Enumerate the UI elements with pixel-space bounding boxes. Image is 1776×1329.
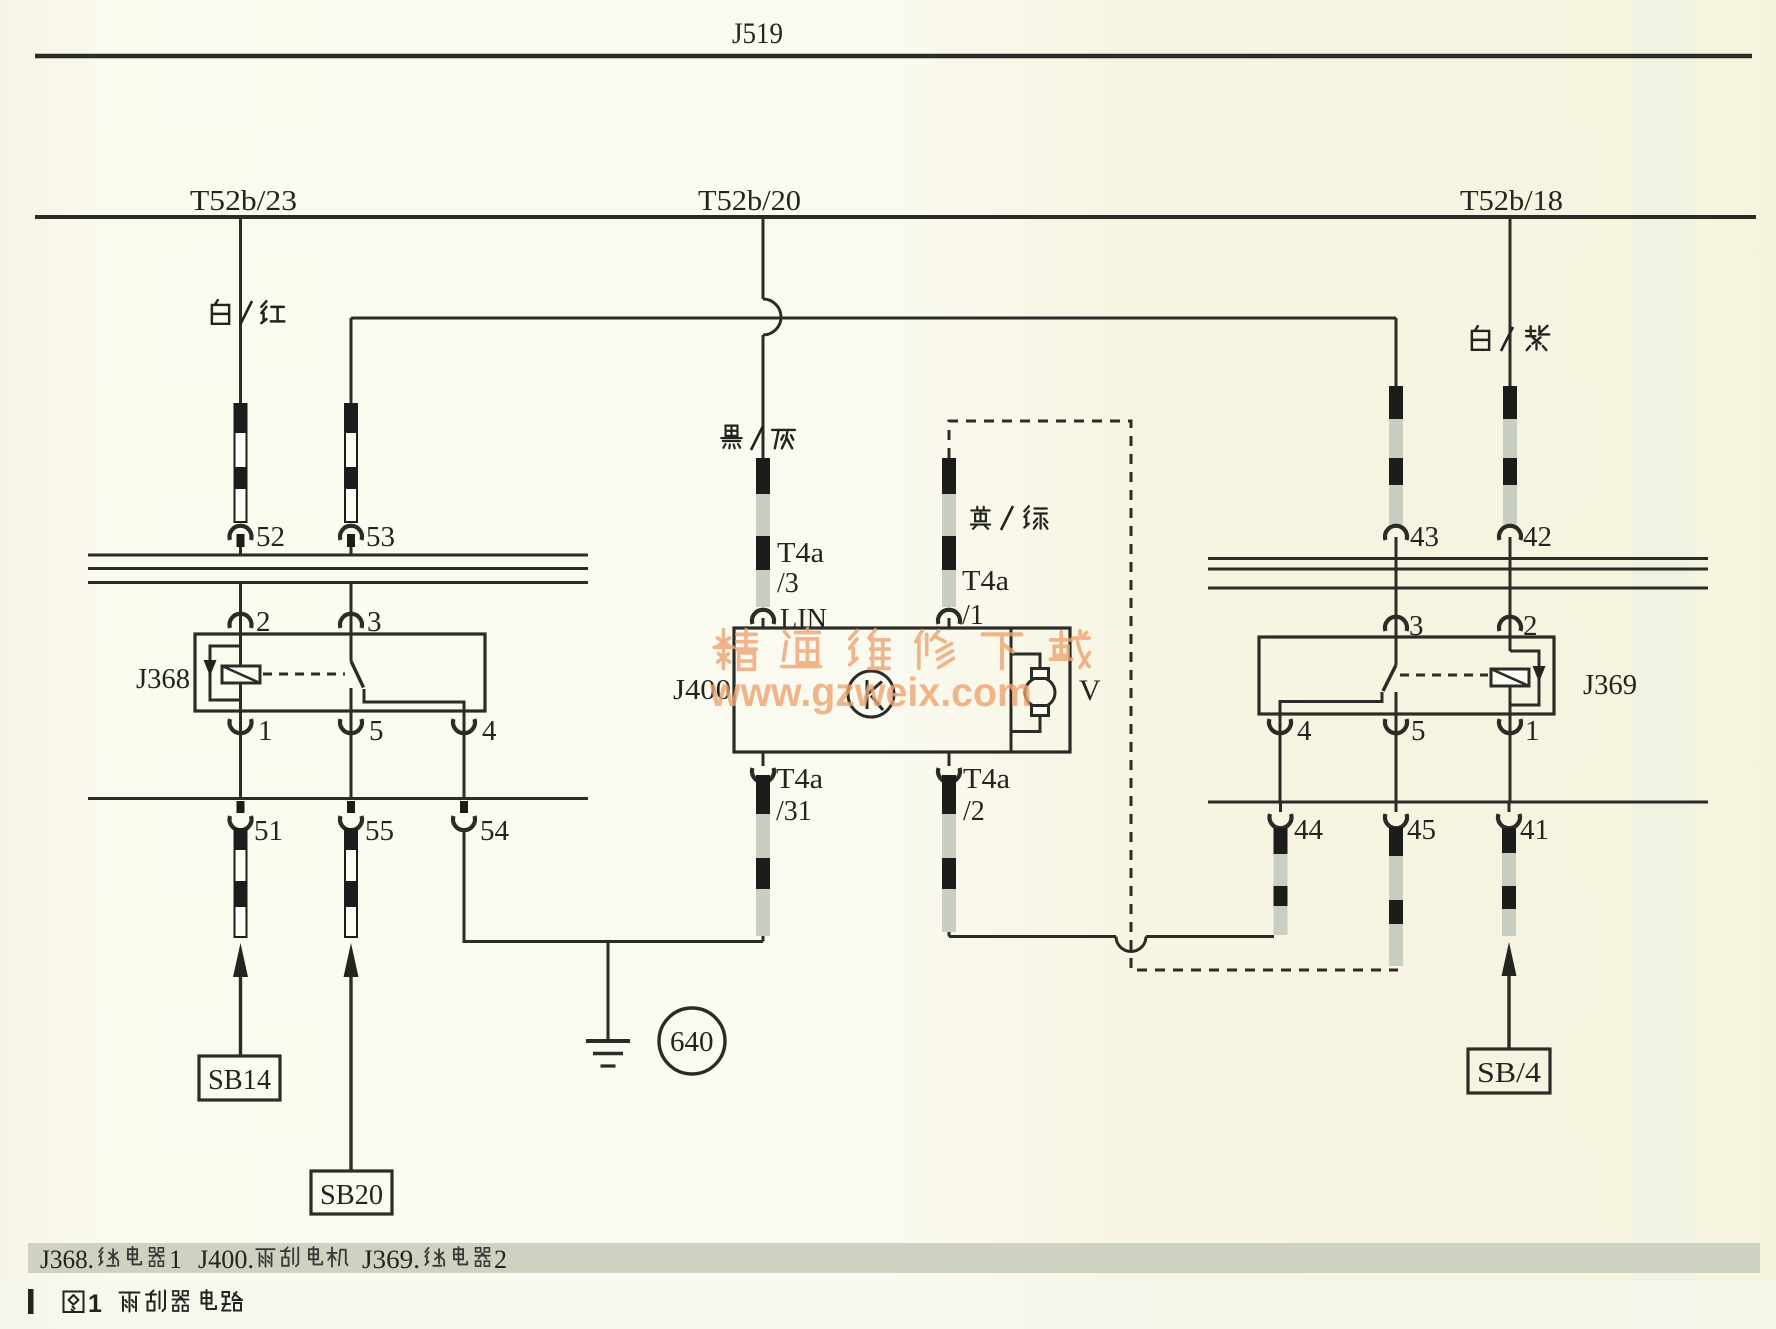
svg-text:2: 2 bbox=[256, 606, 271, 638]
svg-text:LIN: LIN bbox=[780, 604, 827, 635]
right multi-core lines bbox=[1208, 559, 1708, 589]
hop on /2 run bbox=[1116, 937, 1146, 952]
svg-text:/1: /1 bbox=[962, 600, 984, 631]
wire coil to pin1 bbox=[239, 683, 242, 798]
wire crossover hop at T52b/20 column bbox=[763, 299, 781, 335]
wire branch down to 43 bbox=[1395, 318, 1398, 386]
J369 coil diagonal bbox=[1491, 669, 1529, 686]
connector 5 (J369) bbox=[1385, 719, 1407, 733]
connector 3 (J369) bbox=[1385, 617, 1407, 631]
connector 1 bbox=[230, 719, 252, 733]
pin stub 51 bbox=[237, 801, 245, 813]
svg-text:54: 54 bbox=[480, 815, 510, 847]
svg-text:T52b/20: T52b/20 bbox=[698, 185, 801, 217]
pump brush bottom bbox=[1032, 706, 1049, 716]
svg-text:T4a: T4a bbox=[963, 764, 1011, 795]
svg-text:T52b/18: T52b/18 bbox=[1460, 185, 1563, 217]
wire LIN stub bbox=[762, 618, 765, 628]
watermark hanzi line bbox=[714, 629, 1089, 669]
svg-text:5: 5 bbox=[1411, 715, 1426, 747]
svg-text:J368: J368 bbox=[136, 663, 190, 695]
wire into J368 pin2 bbox=[239, 583, 242, 666]
arrow to SB/4 bbox=[1507, 974, 1510, 1049]
J368 pin4 link bbox=[364, 689, 464, 798]
ground drop bbox=[607, 942, 610, 1041]
svg-text:/3: /3 bbox=[777, 568, 799, 599]
J368 coil diagonal bbox=[222, 666, 260, 683]
wire branch 53-to-43 horizontal bbox=[351, 317, 1396, 320]
wire stripe 42 bbox=[1503, 386, 1517, 524]
svg-text:T4a: T4a bbox=[776, 764, 824, 795]
wire coil to pin1 (J369) bbox=[1509, 686, 1512, 802]
svg-text:/31: /31 bbox=[776, 796, 812, 827]
wire stripe 41 bbox=[1502, 828, 1516, 936]
J369 pin4 link bbox=[1280, 692, 1382, 802]
figure title: fig1 wiper circuit bbox=[64, 1290, 243, 1312]
pin stub 53 bbox=[347, 534, 355, 547]
wire branch down to 53 bbox=[350, 318, 353, 403]
svg-text:45: 45 bbox=[1407, 814, 1436, 846]
wire stripe T4a/1 yellow/green bbox=[942, 458, 956, 607]
wire /2 run to 44 with hop bbox=[949, 930, 1116, 937]
wire 43 down bbox=[1395, 537, 1398, 665]
ground symbol bbox=[586, 1039, 630, 1043]
svg-text:51: 51 bbox=[254, 815, 283, 847]
svg-text:SB/4: SB/4 bbox=[1477, 1058, 1541, 1089]
connector 4 bbox=[453, 719, 475, 733]
SB/4 box bbox=[1468, 1049, 1550, 1093]
wire stub 44 bbox=[1279, 802, 1282, 812]
svg-text:/2: /2 bbox=[963, 796, 985, 827]
svg-text:4: 4 bbox=[1297, 715, 1312, 747]
J369 coil rect bbox=[1491, 669, 1529, 686]
wire /31 to ground run bbox=[762, 934, 765, 942]
wire stripe 53 white/black bbox=[344, 403, 358, 522]
wire stripe 51 white/black bbox=[234, 828, 248, 937]
J369 coil arrow bbox=[1533, 666, 1546, 682]
wire colour label white/red bbox=[212, 300, 284, 324]
relay box J368 bbox=[195, 634, 485, 711]
wire T52b/20 below hop bbox=[762, 335, 765, 458]
connector 41 bbox=[1498, 814, 1520, 828]
connector T4a/31 bbox=[752, 768, 774, 782]
J368 dashed link bbox=[263, 673, 345, 676]
connector 42 bbox=[1499, 526, 1521, 540]
connector 45 bbox=[1385, 814, 1407, 828]
wire /1 stub bbox=[948, 618, 951, 628]
svg-text:J369.: J369. bbox=[362, 1245, 420, 1274]
wire stripe 55 white/black bbox=[344, 828, 358, 937]
arrow to SB14 bbox=[239, 975, 242, 1056]
wire contact to pin5 (J369) bbox=[1395, 692, 1398, 802]
svg-text:T4a: T4a bbox=[777, 538, 825, 569]
svg-text:52: 52 bbox=[256, 521, 285, 553]
SB20 box bbox=[311, 1171, 392, 1214]
connector 4 (J369) bbox=[1269, 719, 1291, 733]
wire 54 run to ground node bbox=[464, 831, 763, 942]
wire T52b/23 drop bbox=[239, 217, 242, 403]
svg-text:SB14: SB14 bbox=[208, 1065, 271, 1096]
svg-text:3: 3 bbox=[367, 606, 382, 638]
connector 55 bbox=[340, 816, 362, 830]
svg-text:SB20: SB20 bbox=[320, 1180, 383, 1211]
connector T4a/1 top bbox=[938, 610, 960, 624]
pin stub 55 bbox=[347, 801, 355, 813]
pump wiring loop bbox=[1011, 654, 1040, 732]
svg-text:3: 3 bbox=[1409, 610, 1424, 642]
svg-text:53: 53 bbox=[366, 521, 395, 553]
wire stub 45 bbox=[1395, 802, 1398, 812]
pump brush top bbox=[1032, 669, 1049, 679]
wire 53 below stripe bbox=[350, 540, 353, 556]
J368 coil arrow bbox=[204, 660, 217, 676]
wire T52b/18 drop bbox=[1509, 216, 1512, 386]
motor symbol K strokes bbox=[867, 680, 883, 710]
pump compartment divider bbox=[1010, 628, 1013, 752]
wire stripe 45 bbox=[1389, 827, 1403, 966]
svg-text:J400.: J400. bbox=[198, 1245, 254, 1274]
right lower bus bbox=[1208, 801, 1708, 804]
J369 dashed link bbox=[1400, 674, 1488, 677]
J400 bottom stub /2 bbox=[948, 752, 951, 766]
wire colour label black/grey bbox=[721, 426, 795, 449]
svg-text:55: 55 bbox=[365, 815, 394, 847]
connector 1 (J369) bbox=[1499, 719, 1521, 733]
connector 43 bbox=[1385, 526, 1407, 540]
connector 5 bbox=[340, 719, 362, 733]
svg-text:T52b/23: T52b/23 bbox=[190, 185, 297, 217]
wire stripe T4a/31 bbox=[756, 775, 770, 936]
bus T52b bbox=[35, 215, 1756, 219]
arrow to SB20 bbox=[349, 975, 352, 1171]
svg-text:1: 1 bbox=[169, 1245, 182, 1274]
connector 2 bbox=[230, 614, 252, 628]
svg-text:43: 43 bbox=[1410, 521, 1439, 553]
wire stripe T4a/3 black/grey bbox=[756, 458, 770, 607]
wire /2 run after hop bbox=[1146, 935, 1274, 938]
svg-text:2: 2 bbox=[1523, 610, 1538, 642]
figure title bar bbox=[28, 1289, 34, 1314]
pin stub 52 bbox=[237, 534, 245, 547]
left multi-core lines bbox=[88, 555, 588, 583]
wire stripe 52 white/black bbox=[234, 403, 248, 522]
wire colour label yellow/green bbox=[971, 506, 1048, 529]
svg-text:1: 1 bbox=[258, 715, 273, 747]
svg-text:J519: J519 bbox=[732, 17, 783, 50]
svg-text:640: 640 bbox=[670, 1026, 714, 1058]
svg-text:V: V bbox=[1079, 674, 1101, 707]
J368 switch blade bbox=[351, 661, 364, 688]
dashed control line bbox=[949, 421, 1398, 970]
connector 54 bbox=[453, 816, 475, 830]
wiper motor box J400 bbox=[734, 628, 1070, 752]
connector 53 bbox=[340, 526, 362, 540]
wire 52 below stripe bbox=[239, 540, 242, 556]
wire contact to pin5 bbox=[350, 688, 353, 798]
wire colour label white/violet bbox=[1472, 326, 1549, 350]
caption band bbox=[28, 1243, 1760, 1273]
svg-text:J369: J369 bbox=[1583, 669, 1637, 701]
caption row: J368 relay1 J400 wiper motor J369 relay2 bbox=[40, 1245, 507, 1274]
connector LIN bbox=[752, 610, 774, 624]
wire stripe T4a/2 bbox=[942, 775, 956, 932]
connector 2 (J369) bbox=[1499, 617, 1521, 631]
connector 51 bbox=[230, 816, 252, 830]
svg-text:1: 1 bbox=[1525, 715, 1540, 747]
connector 44 bbox=[1270, 814, 1292, 828]
J368 coil rect bbox=[222, 666, 260, 683]
connector T4a/2 bbox=[938, 768, 960, 782]
pump motor V circle bbox=[1025, 678, 1055, 708]
svg-text:5: 5 bbox=[369, 715, 384, 747]
svg-text:44: 44 bbox=[1294, 814, 1324, 846]
bus J519 bbox=[35, 54, 1752, 59]
wire stripe 44 bbox=[1274, 828, 1288, 935]
wire stub 41 bbox=[1508, 802, 1511, 812]
relay box J369 bbox=[1259, 637, 1554, 714]
svg-text:41: 41 bbox=[1520, 814, 1549, 846]
SB14 box bbox=[199, 1056, 280, 1100]
svg-text:T4a: T4a bbox=[962, 566, 1010, 597]
connector 52 bbox=[230, 526, 252, 540]
ground id circle 640 bbox=[659, 1008, 725, 1074]
connector 3 bbox=[340, 614, 362, 628]
pin stub 54 bbox=[460, 801, 468, 813]
J369 switch blade bbox=[1383, 665, 1396, 691]
svg-text:2: 2 bbox=[494, 1245, 507, 1274]
svg-text:www.gzweix.com: www.gzweix.com bbox=[709, 669, 1032, 715]
svg-text:1: 1 bbox=[88, 1290, 102, 1318]
wire T52b/20 drop bbox=[762, 217, 765, 299]
motor symbol circle bbox=[848, 671, 894, 717]
J368 coil loop bbox=[210, 646, 241, 700]
svg-text:42: 42 bbox=[1523, 521, 1552, 553]
svg-text:4: 4 bbox=[482, 715, 497, 747]
left lower bus bbox=[88, 797, 588, 800]
wire 42 down bbox=[1509, 537, 1512, 651]
wire into J368 pin3 bbox=[350, 583, 353, 661]
svg-text:J368.: J368. bbox=[40, 1245, 94, 1274]
wire stripe 43 bbox=[1389, 386, 1403, 524]
J369 coil loop bbox=[1510, 651, 1539, 705]
J400 bottom stub /31 bbox=[762, 752, 765, 766]
